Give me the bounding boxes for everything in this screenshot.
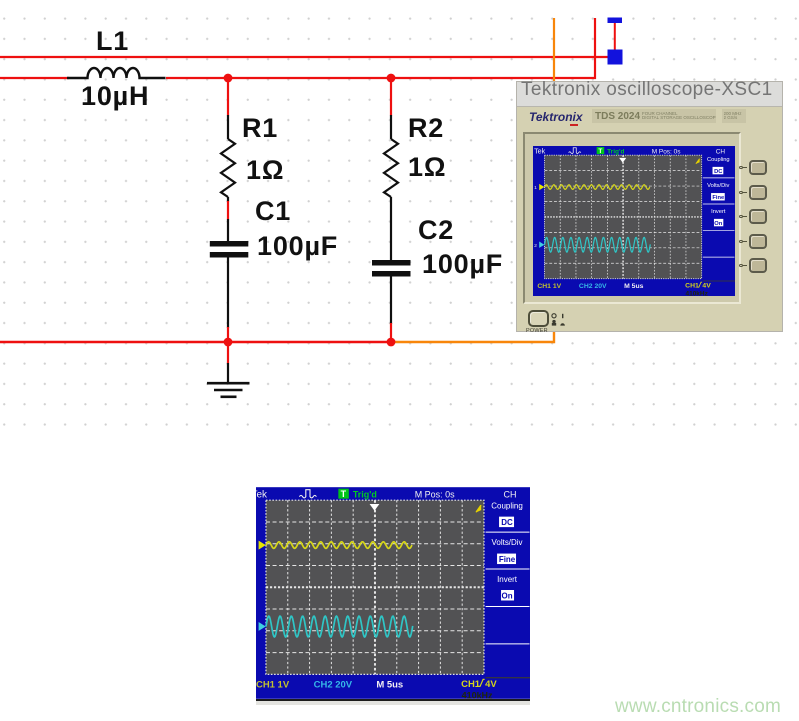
svg-text:T: T [599,148,603,155]
svg-text:Invert: Invert [497,575,518,584]
svg-text:Volts/Div: Volts/Div [707,183,729,189]
svg-text:Fine: Fine [499,555,516,564]
svg-text:M 5us: M 5us [624,283,644,290]
svg-text:CH2 20V: CH2 20V [314,679,353,690]
svg-text:Trig'd: Trig'd [353,490,377,500]
svg-text:Fine: Fine [713,195,725,201]
svg-text:DC: DC [501,518,513,527]
svg-text:2: 2 [534,243,537,249]
svg-text:T: T [341,489,347,499]
svg-text:Coupling: Coupling [707,157,730,163]
svg-text:M Pos: 0s: M Pos: 0s [652,148,681,155]
svg-text:On: On [715,221,723,227]
svg-text:Tek: Tek [256,490,268,501]
svg-text:M 5us: M 5us [376,679,403,690]
svg-text:Volts/Div: Volts/Div [492,538,523,547]
svg-text:CH1: CH1 [461,679,480,690]
svg-text:4V: 4V [703,283,712,290]
svg-text:CH1 1V: CH1 1V [538,283,562,290]
svg-text:410kHz: 410kHz [686,291,708,296]
svg-text:On: On [502,591,513,600]
svg-text:CH1 1V: CH1 1V [256,679,290,690]
svg-text:M Pos: 0s: M Pos: 0s [415,490,455,500]
svg-text:Tek: Tek [534,147,546,155]
svg-text:4V: 4V [485,679,497,690]
svg-text:DC: DC [714,169,722,175]
svg-text:Trig'd: Trig'd [607,148,624,155]
svg-text:Coupling: Coupling [491,502,522,511]
svg-text:CH: CH [716,148,726,155]
svg-text:CH1: CH1 [685,283,699,290]
svg-text:CH: CH [504,490,517,500]
svg-text:Invert: Invert [711,209,726,215]
svg-text:1: 1 [534,185,537,191]
svg-text:CH2 20V: CH2 20V [579,283,607,290]
